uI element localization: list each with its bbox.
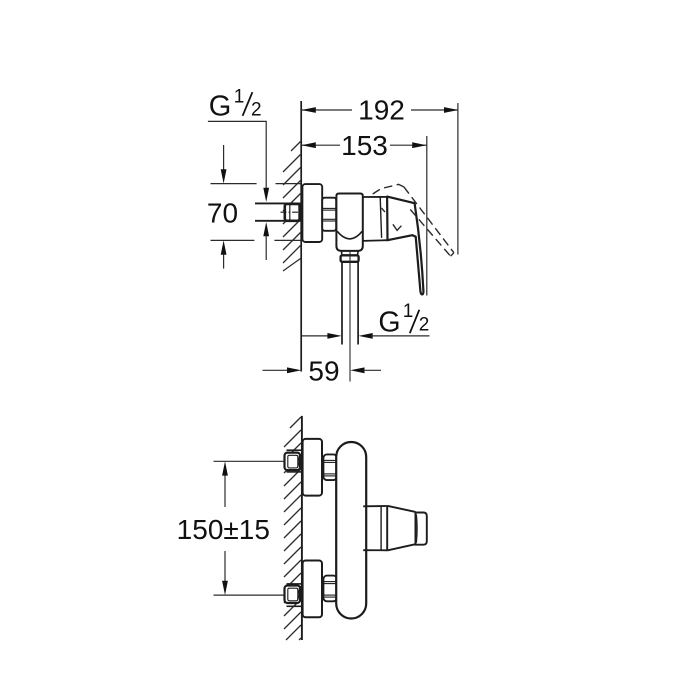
dimension 70: dimension line with outside arrows bbox=[223, 145, 225, 171]
shower hose bbox=[342, 262, 358, 345]
G1/2 top arrow (down, at pipe top edge) bbox=[263, 188, 269, 202]
dimension 153: line bbox=[302, 144, 427, 146]
wall hatching (bottom figure) bbox=[284, 417, 301, 640]
lower escutcheon (bottom figure) bbox=[303, 561, 322, 618]
dimension 192: line bbox=[302, 109, 459, 111]
lower supply cylinder lines (bottom figure) bbox=[287, 584, 302, 606]
dimension 192: arrowheads bbox=[302, 107, 316, 113]
dashed handle (raised position) bbox=[373, 184, 454, 256]
main body capsule (bottom figure) bbox=[336, 442, 366, 619]
handle cone + lever (top figure) bbox=[387, 197, 423, 295]
extension line right of 153 bbox=[426, 136, 428, 296]
G1/2 top arrow (up, at pipe bottom edge) bbox=[263, 222, 269, 236]
svg-text:2: 2 bbox=[419, 315, 430, 336]
svg-text:G: G bbox=[209, 90, 232, 122]
svg-text:192: 192 bbox=[358, 95, 405, 126]
svg-text:150±15: 150±15 bbox=[177, 514, 270, 545]
supply pipe (behind wall, top figure) bbox=[255, 203, 301, 220]
hex nut on supply pipe (top figure) bbox=[285, 204, 300, 221]
svg-text:59: 59 bbox=[308, 356, 339, 387]
svg-text:1: 1 bbox=[403, 301, 414, 322]
dimension 150±15: extension lines bbox=[214, 461, 285, 595]
upper hex fitting (bottom figure) bbox=[285, 453, 301, 471]
spout step (bottom figure) bbox=[363, 506, 387, 550]
svg-text:70: 70 bbox=[207, 197, 238, 228]
upper escutcheon (bottom figure) bbox=[303, 439, 322, 496]
lower hex fitting (bottom figure) bbox=[285, 586, 301, 604]
spout end cap (bottom figure) bbox=[416, 513, 427, 545]
wall hatching (top figure) bbox=[283, 142, 301, 272]
cartridge ring (top figure) bbox=[363, 197, 388, 241]
outlet step below body bbox=[341, 251, 358, 255]
escutcheon / flange (top figure) bbox=[302, 184, 322, 242]
dimension 70: extension lines bbox=[211, 184, 302, 241]
svg-text:153: 153 bbox=[341, 130, 388, 161]
upper union nut (bottom figure) bbox=[323, 454, 336, 480]
centerline (dash-dot) of supply pipe bbox=[281, 211, 303, 213]
wall line (top figure, also left extension line for 192/153/59) bbox=[300, 101, 302, 372]
leader line of G 1/2 top bbox=[208, 121, 266, 188]
G1/2 lower leader: right arrow + underline bbox=[358, 333, 372, 339]
dimension 150±15: dimension line + arrows bbox=[224, 475, 226, 508]
hose centerline (extension for 59) bbox=[349, 252, 351, 382]
dimension 153: arrowheads bbox=[302, 142, 316, 148]
body internal arc bbox=[337, 231, 362, 239]
dimension 59 bbox=[263, 369, 289, 371]
extension line right of 192 bbox=[457, 103, 459, 255]
upper supply cylinder lines (bottom figure) bbox=[287, 450, 302, 472]
svg-text:2: 2 bbox=[251, 99, 262, 120]
spout cone (bottom figure) bbox=[387, 506, 415, 551]
svg-text:G: G bbox=[378, 307, 400, 339]
G1/2 lower leader: left arrow bbox=[302, 335, 329, 337]
wall line (bottom figure) bbox=[301, 416, 303, 640]
union nut (top figure) bbox=[322, 198, 336, 231]
main body (top figure) bbox=[336, 194, 362, 251]
hose nut bbox=[341, 255, 359, 261]
lower union nut (bottom figure) bbox=[323, 576, 336, 602]
svg-text:1: 1 bbox=[234, 87, 245, 108]
